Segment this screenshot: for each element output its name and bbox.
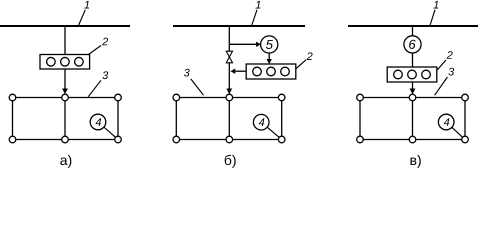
sprinkler nodes (scheme v)	[357, 94, 469, 143]
pipe network 3 middle riser (scheme a)	[64, 98, 66, 140]
leader line to label 1 (scheme b)	[252, 10, 258, 26]
wire: supply main 1 (scheme a)	[0, 25, 130, 27]
leader line to label 2 (scheme b)	[296, 60, 306, 69]
label 3 (scheme a)	[102, 71, 108, 79]
pipe network 3 bottom run (scheme v)	[360, 139, 465, 141]
label 2 (scheme v)	[447, 51, 453, 59]
control unit 2 box (scheme v)	[387, 67, 437, 82]
pipe network 3 bottom run (scheme a)	[13, 139, 119, 141]
leader line from circle 4 to node (scheme v)	[452, 127, 463, 137]
valve (scheme b)	[226, 51, 232, 63]
leader line to label 3 (scheme v)	[435, 77, 448, 95]
leader line to label 2 (scheme a)	[89, 46, 102, 55]
control unit 2 circle pins (scheme v)	[394, 70, 431, 79]
control unit 2 box (scheme b)	[246, 64, 296, 79]
callout circle 4 (scheme a)	[90, 114, 106, 130]
pipe network 3 right riser (scheme b)	[281, 98, 283, 140]
wire: supply main 1 (scheme v)	[348, 25, 478, 27]
control unit 2 circle pins (scheme b)	[253, 67, 290, 76]
callout circle 4 (scheme b)	[253, 114, 269, 130]
device circle 6 (scheme v)	[404, 36, 421, 53]
control unit 2 circle pins (scheme a)	[47, 57, 84, 66]
callout circle 4 (scheme v)	[438, 114, 454, 130]
wire with arrow: unit 2 to pipe network (scheme a)	[64, 69, 66, 89]
caption a)	[60, 155, 71, 168]
label 1 (scheme a)	[84, 1, 89, 9]
pipe network 3 right riser (scheme v)	[464, 98, 466, 140]
caption b)	[225, 155, 236, 168]
leader line from circle 4 to node (scheme a)	[104, 127, 116, 137]
pipe network 3 top run (scheme b)	[176, 97, 281, 99]
pipe network 3 top run (scheme v)	[360, 97, 465, 99]
control unit 2 box (scheme a)	[40, 55, 90, 70]
pipe network 3 left riser (scheme b)	[175, 98, 177, 140]
pipe network 3 bottom run (scheme b)	[176, 139, 281, 141]
label 2 (scheme b)	[307, 52, 313, 60]
pipe network 3 middle riser (scheme v)	[412, 98, 414, 140]
label 1 (scheme v)	[433, 1, 438, 9]
wire: main to control unit 2 (scheme a)	[64, 26, 66, 55]
wire: supply main 1 (scheme b)	[173, 25, 305, 27]
pipe network 3 left riser (scheme v)	[359, 98, 361, 140]
wire: main riser with arrow to pipe network (scheme b)	[228, 26, 230, 89]
wire with arrow: branch to device 5 (scheme b)	[229, 43, 256, 45]
leader line to label 3 (scheme b)	[191, 79, 204, 95]
leader line to label 2 (scheme v)	[437, 60, 446, 71]
wire: main to device 6 (scheme v)	[412, 26, 414, 36]
label 2 (scheme a)	[102, 38, 108, 46]
wire with arrow: device 5 to control unit 2 (scheme b)	[268, 53, 270, 59]
label 1 (scheme b)	[256, 1, 261, 9]
leader line from circle 4 to node (scheme b)	[267, 127, 279, 137]
sprinkler nodes (scheme a)	[9, 94, 121, 143]
pipe network 3 left riser (scheme a)	[12, 98, 14, 140]
leader line to label 3 (scheme a)	[88, 80, 101, 97]
pipe network 3 top run (scheme a)	[13, 97, 119, 99]
device circle 5 (scheme b)	[261, 36, 278, 53]
label 3 (scheme b)	[184, 69, 190, 77]
sprinkler nodes (scheme b)	[173, 94, 285, 143]
label 3 (scheme v)	[448, 68, 454, 76]
wire: device 6 to control unit 2 (scheme v)	[412, 53, 414, 67]
leader line to label 1 (scheme v)	[430, 10, 435, 26]
wire with arrow: unit 2 to pipe network (scheme v)	[412, 82, 414, 89]
caption v)	[411, 155, 421, 168]
pipe network 3 middle riser (scheme b)	[228, 98, 230, 140]
leader line to label 1 (scheme a)	[79, 10, 86, 26]
pipe network 3 right riser (scheme a)	[117, 98, 119, 140]
wire with arrow: unit 2 to riser (scheme b)	[235, 70, 246, 72]
